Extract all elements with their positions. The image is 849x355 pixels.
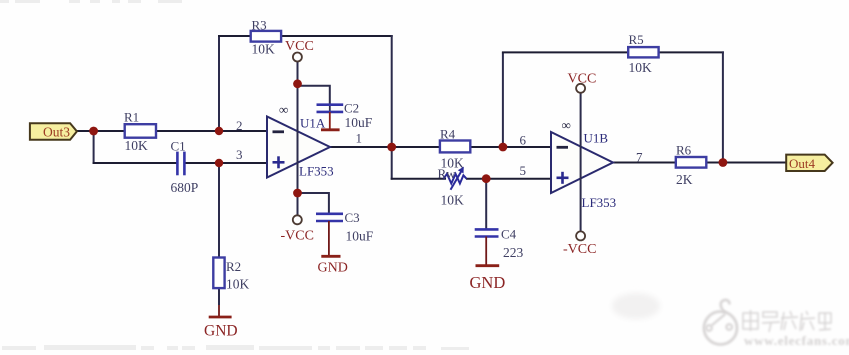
svg-text:6: 6 [520,132,527,147]
svg-text:GND: GND [318,260,348,275]
capacitor C1 [171,138,199,194]
svg-text:1: 1 [356,131,363,146]
power terminal -VCC (U1B) [563,231,596,256]
svg-text:C2: C2 [344,101,359,116]
wire [218,163,220,258]
wire [156,130,267,132]
junction [215,127,223,135]
svg-text:www.elecfans.com: www.elecfans.com [744,333,849,348]
svg-text:10uF: 10uF [346,228,374,243]
svg-text:C4: C4 [501,227,517,242]
wire [612,162,676,164]
watermark text [743,310,849,348]
junction [215,159,223,167]
wire [76,130,125,132]
junction [293,79,302,88]
wire [659,51,724,53]
resistor R1 [124,110,156,154]
potentiometer Rw [438,166,467,208]
wire [281,35,393,37]
svg-text:R3: R3 [252,17,267,32]
svg-text:Rw: Rw [438,166,457,181]
capacitor C3 [316,210,374,244]
wire [391,35,393,147]
svg-text:3: 3 [236,147,243,162]
svg-text:10uF: 10uF [345,115,373,130]
svg-text:10K: 10K [226,277,250,292]
power terminal -VCC (U1A) [281,215,314,243]
resistor R2 [213,258,249,292]
port Out3 [30,123,77,140]
junction [719,158,728,167]
capacitor C4 [475,227,524,260]
watermark logo [612,293,737,345]
svg-text:10K: 10K [125,138,149,153]
junction [387,143,396,152]
ground below R2 [204,305,238,340]
svg-text:VCC: VCC [285,39,314,54]
svg-text:R1: R1 [124,110,139,125]
VCC power stem U1A [297,62,299,216]
svg-text:VCC: VCC [568,72,597,87]
svg-text:680P: 680P [171,180,199,195]
resistor R3 [251,17,281,56]
junction [499,143,508,152]
svg-text:Out3: Out3 [43,125,70,140]
svg-text:R5: R5 [629,32,644,47]
capacitor C2 [317,101,373,130]
svg-text:GND: GND [204,323,238,340]
wire [706,162,787,164]
svg-text:∞: ∞ [562,118,571,133]
svg-text:5: 5 [520,163,527,178]
wire [502,52,504,148]
wire [93,162,177,164]
ground below C4 [470,237,506,293]
wire [502,51,629,53]
wire [470,146,551,148]
svg-text:-VCC: -VCC [563,242,596,257]
svg-text:R2: R2 [226,259,241,274]
wire [330,146,440,148]
resistor R4 [440,127,470,171]
svg-text:10K: 10K [252,41,276,56]
svg-text:R4: R4 [440,127,456,142]
wire [218,35,251,37]
port Out4 [786,155,832,171]
VCC power stem U1B [580,93,582,232]
power terminal VCC (U1A) [285,39,314,61]
power terminal VCC (U1B) [568,72,597,93]
svg-text:Out4: Out4 [789,156,816,171]
svg-text:C3: C3 [345,210,360,225]
svg-text:LF353: LF353 [582,195,617,210]
wire [466,178,551,180]
wire [485,179,487,230]
junction [293,189,302,198]
wire [329,105,331,113]
ground below C3 [318,221,348,275]
op-amp U1A [267,102,330,178]
resistor R6 [676,143,707,187]
svg-text:7: 7 [636,150,643,165]
wire [391,147,393,180]
svg-text:2K: 2K [676,172,693,187]
wire [298,86,330,105]
svg-text:10K: 10K [441,192,465,207]
svg-text:2: 2 [236,118,243,133]
wire [722,51,724,163]
wire [218,288,220,305]
resistor R5 [628,32,658,75]
svg-text:223: 223 [503,245,524,260]
wire [298,193,329,214]
wire [185,162,268,164]
junction [482,174,491,183]
svg-text:-VCC: -VCC [281,229,314,244]
ground bar below C2 [321,112,340,130]
svg-text:C1: C1 [171,138,186,153]
svg-text:LF353: LF353 [299,163,334,178]
svg-text:10K: 10K [629,60,653,75]
svg-text:U1B: U1B [584,130,609,145]
wire [391,178,446,180]
svg-text:GND: GND [470,273,506,292]
wire [93,131,95,164]
svg-text:∞: ∞ [279,102,288,117]
svg-text:U1A: U1A [300,116,326,131]
op-amp U1B [551,118,613,194]
svg-text:R6: R6 [676,143,692,158]
junction [89,127,98,136]
wire [218,36,220,131]
